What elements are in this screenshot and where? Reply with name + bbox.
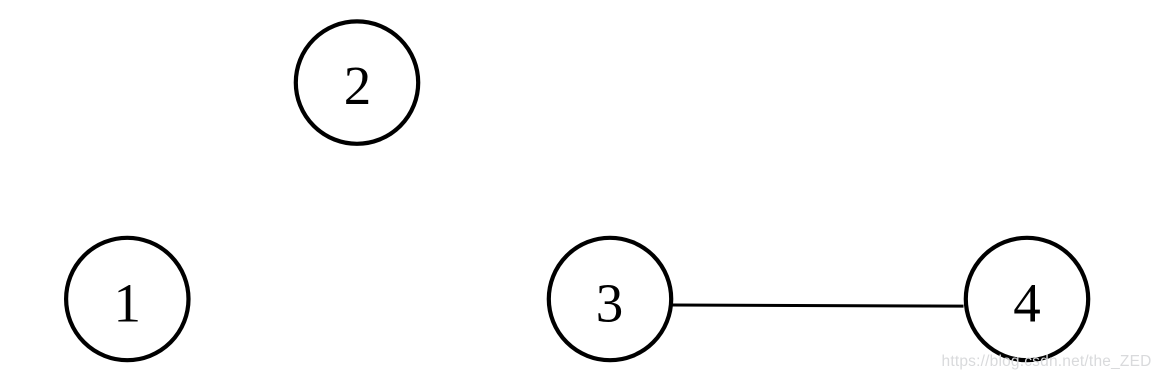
wire edge 3-4: [673, 305, 964, 306]
node 2: [296, 21, 418, 143]
svg-text:1: 1: [114, 273, 142, 334]
node 1: [66, 238, 188, 360]
svg-text:2: 2: [344, 55, 372, 116]
node 3: [549, 238, 671, 360]
svg-text:3: 3: [596, 273, 624, 334]
watermark: [942, 353, 1159, 371]
node 4: [966, 238, 1088, 360]
svg-text:4: 4: [1013, 273, 1041, 334]
